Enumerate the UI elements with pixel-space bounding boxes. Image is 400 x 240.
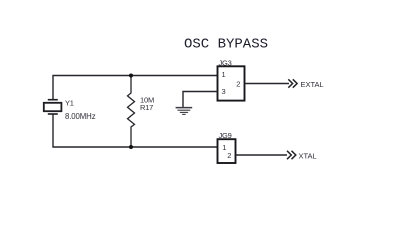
wire JG9 pin 2 to XTAL connector (236, 154, 288, 156)
off-page connector EXTAL (double chevron) (288, 79, 297, 87)
connector JG3 (218, 66, 245, 100)
svg-text:EXTAL: EXTAL (301, 80, 324, 89)
svg-text:1: 1 (222, 143, 226, 152)
svg-text:3: 3 (222, 87, 226, 96)
wire JG3 pin 3 to ground (183, 92, 218, 108)
wire bottom rail from Y1 bottom to JG9 pin 1 (53, 114, 218, 147)
svg-text:JG9: JG9 (219, 131, 232, 140)
svg-text:1: 1 (222, 70, 226, 79)
svg-text:JG3: JG3 (219, 58, 232, 67)
off-page connector XTAL (double chevron) (287, 151, 296, 159)
junction node at resistor top (129, 74, 133, 78)
wire JG3 pin 2 to EXTAL connector (245, 83, 290, 85)
svg-text:2: 2 (227, 151, 231, 160)
crystal Y1 (44, 100, 62, 114)
svg-text:Y1: Y1 (65, 99, 74, 108)
junction node at resistor bottom (129, 145, 133, 149)
svg-text:2: 2 (236, 80, 240, 89)
svg-text:8.00MHz: 8.00MHz (65, 112, 96, 121)
svg-text:OSC BYPASS: OSC BYPASS (184, 36, 268, 52)
ground (176, 108, 193, 115)
wire top rail from Y1 top to JG3 pin 1 (53, 76, 218, 100)
svg-text:XTAL: XTAL (299, 151, 317, 160)
svg-text:R17: R17 (140, 103, 153, 112)
connector JG9 (218, 139, 236, 163)
resistor R17 (128, 76, 135, 148)
